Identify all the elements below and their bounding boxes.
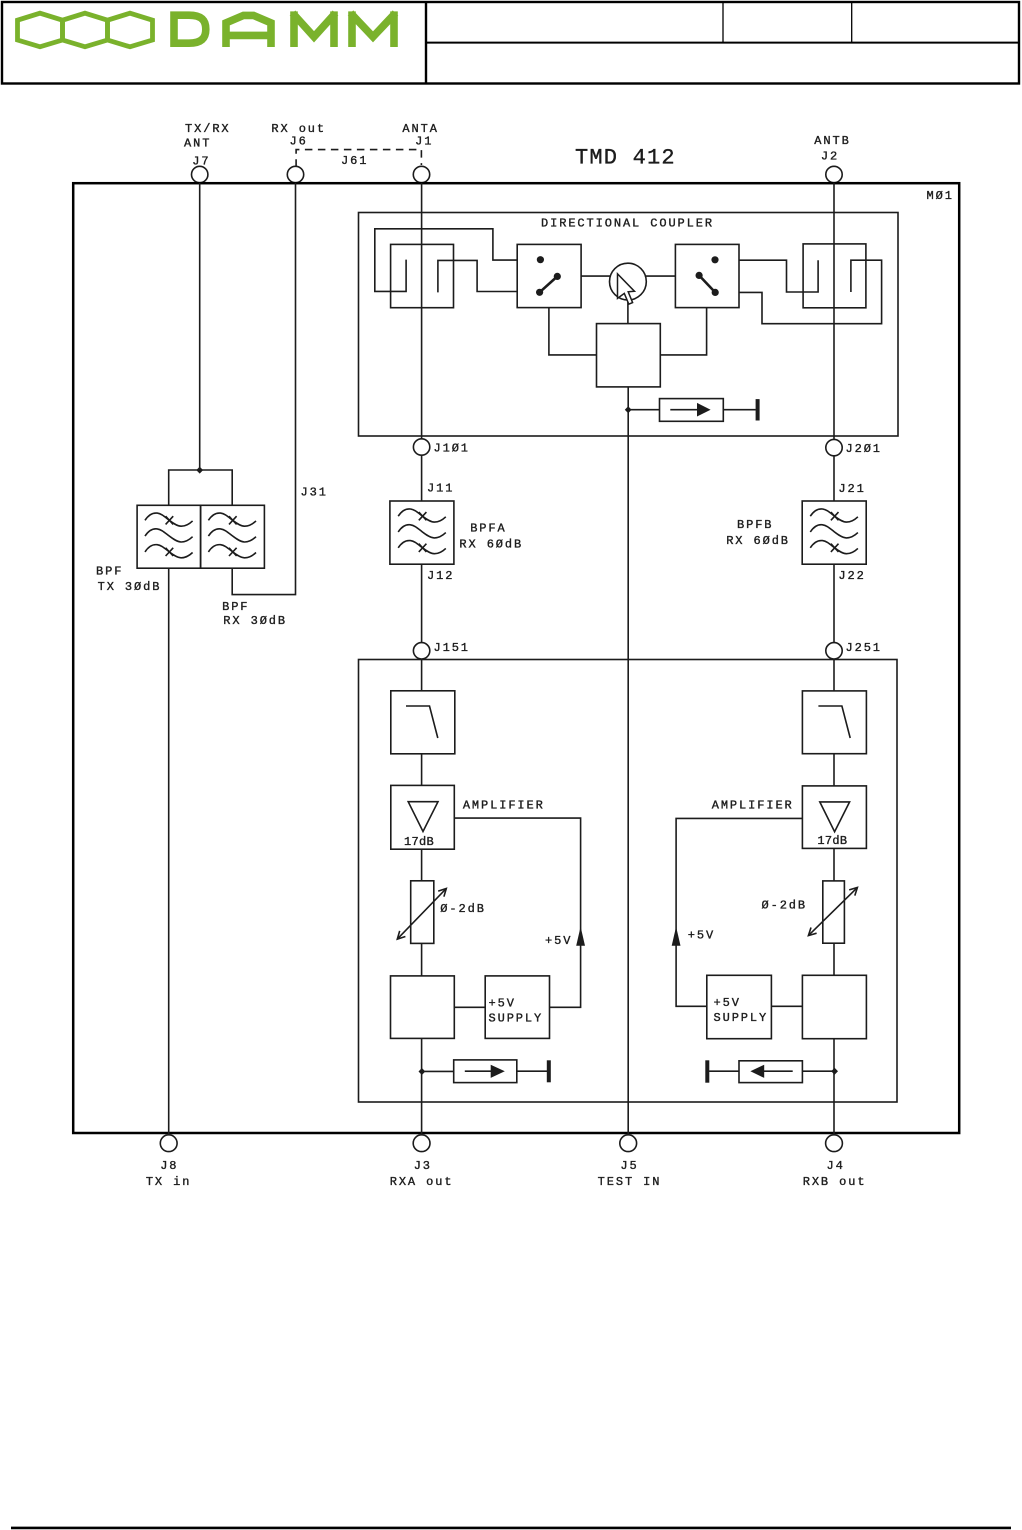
- variable attenuator A box: [411, 881, 434, 944]
- svg-text:DIRECTIONAL COUPLER: DIRECTIONAL COUPLER: [541, 217, 714, 231]
- attenuator pad box with arrow: [660, 399, 724, 422]
- header row divider: [426, 42, 1019, 44]
- wire switch S1 to detector: [549, 308, 597, 355]
- svg-text:+5V: +5V: [489, 997, 516, 1011]
- svg-text:RX 6ØdB: RX 6ØdB: [726, 534, 790, 548]
- +5V arrow B: [672, 927, 681, 946]
- svg-text:J1Ø1: J1Ø1: [434, 442, 470, 456]
- low-pass filter B symbol: [818, 706, 850, 738]
- RF switch S2 contacts and arm: [696, 256, 719, 296]
- DAMM logo letter D: [174, 15, 206, 43]
- termination load bar: [756, 399, 760, 420]
- svg-text:J6: J6: [289, 134, 307, 148]
- dashed link J61 between J6 and J1: [296, 150, 421, 167]
- wire J6 down to J31 corner: [232, 183, 295, 595]
- label J8 TX in: [146, 1159, 192, 1189]
- connector circle J2: [826, 166, 842, 182]
- isolator B box with arrow: [739, 1061, 802, 1083]
- svg-text:J3: J3: [414, 1159, 432, 1173]
- duplexer filter BPF TX box: [137, 505, 201, 568]
- label TX/RX ANT J7: [184, 122, 231, 169]
- svg-text:TX in: TX in: [146, 1175, 192, 1189]
- wire BPF TX feed tee: [169, 470, 233, 505]
- variable attenuator A arrow: [397, 889, 446, 940]
- wire J2 lower segment BPFB to J251: [833, 564, 835, 691]
- svg-text:BPFB: BPFB: [737, 518, 773, 532]
- mouse cursor pointer: [618, 274, 635, 304]
- label J4 RXB out: [803, 1159, 867, 1189]
- wire mixer A down to J3: [421, 1038, 423, 1134]
- label ANTA J1: [402, 122, 438, 148]
- main module box M01: [73, 183, 959, 1133]
- wire amp B to attenuator B: [833, 848, 835, 881]
- svg-text:J22: J22: [838, 569, 865, 583]
- connector circle J6: [287, 166, 303, 182]
- junction node A output: [419, 1068, 426, 1075]
- wire junction to isolator A: [422, 1070, 454, 1072]
- junction node test line: [625, 406, 632, 413]
- svg-text:SUPPLY: SUPPLY: [489, 1011, 544, 1025]
- microstrip meander right outer path: [739, 260, 882, 324]
- low-pass filter A box: [391, 691, 455, 754]
- connector circle J4: [826, 1135, 843, 1152]
- amplifier A triangle: [408, 802, 438, 832]
- microstrip meander right inner loop: [803, 244, 866, 308]
- DAMM logo hexagon 1: [18, 13, 63, 47]
- svg-text:J251: J251: [846, 641, 882, 655]
- junction node at BPF TX input: [196, 467, 203, 474]
- connector circle J251: [826, 643, 842, 659]
- wire attenuator to termination: [723, 409, 756, 411]
- amplifier B triangle: [820, 802, 850, 832]
- microstrip meander left finger path: [438, 260, 517, 292]
- svg-text:AMPLIFIER: AMPLIFIER: [463, 798, 545, 812]
- svg-text:J21: J21: [838, 482, 865, 496]
- band-pass filter BPFB box: [802, 501, 866, 564]
- isolator A box with arrow: [454, 1060, 517, 1083]
- header top-row cell divider 2: [851, 2, 853, 43]
- DAMM logo hexagon 2: [63, 13, 108, 47]
- RF switch S1 contacts and arm: [536, 256, 561, 296]
- wire isolator A to termination: [517, 1070, 547, 1072]
- wire attenuator B to mixer B: [833, 943, 835, 975]
- connector circle J3: [413, 1135, 430, 1152]
- svg-text:J31: J31: [301, 486, 328, 500]
- amplifier B box: [802, 786, 866, 849]
- wire amp B +5V feed: [676, 818, 802, 1006]
- BPF TX wave symbols: [145, 513, 193, 558]
- band-pass filter BPFA box: [390, 501, 454, 564]
- svg-text:BPFA: BPFA: [470, 522, 506, 536]
- wire isolator B to termination: [709, 1070, 739, 1072]
- svg-text:RX 6ØdB: RX 6ØdB: [459, 537, 523, 551]
- low-pass filter B box: [802, 691, 866, 754]
- svg-text:TMD 412: TMD 412: [575, 146, 676, 171]
- connector circle J8: [160, 1135, 177, 1152]
- svg-text:MØ1: MØ1: [927, 189, 954, 203]
- circulator circle: [610, 263, 647, 300]
- detector box: [597, 324, 661, 387]
- svg-text:J2Ø1: J2Ø1: [846, 442, 882, 456]
- lower RX section box: [359, 660, 898, 1103]
- RF switch S1 box: [517, 244, 581, 307]
- svg-text:J5: J5: [620, 1159, 638, 1173]
- wire TEST IN vertical J5: [627, 387, 629, 1135]
- svg-text:17dB: 17dB: [817, 834, 847, 848]
- connector circle J201: [826, 439, 842, 455]
- svg-text:SUPPLY: SUPPLY: [714, 1011, 769, 1025]
- microstrip meander left inner loop: [391, 244, 454, 307]
- svg-text:J2: J2: [821, 150, 839, 164]
- RF switch S2 box: [675, 244, 739, 307]
- svg-text:J8: J8: [160, 1159, 178, 1173]
- svg-text:RX 3ØdB: RX 3ØdB: [223, 614, 287, 628]
- wire switch S1 to circulator: [581, 275, 611, 277]
- +5V supply box B: [707, 975, 772, 1038]
- svg-text:J11: J11: [427, 482, 454, 496]
- svg-text:ANT: ANT: [184, 137, 211, 151]
- wire switch S2 to detector: [660, 308, 706, 355]
- label BPF TX 30dB: [96, 565, 161, 594]
- amplifier A box: [391, 785, 455, 849]
- svg-text:AMPLIFIER: AMPLIFIER: [712, 798, 794, 812]
- svg-text:J12: J12: [427, 569, 454, 583]
- BPFA wave symbols: [398, 509, 446, 554]
- wire circulator to detector box: [627, 300, 629, 324]
- connector circle J1: [413, 166, 429, 182]
- wire junction to attenuator: [628, 409, 659, 411]
- svg-text:TEST IN: TEST IN: [598, 1175, 662, 1189]
- header divider logo cell right edge: [425, 2, 427, 84]
- wire mixer A to supply A: [454, 1006, 485, 1008]
- connector circle J151: [413, 643, 429, 659]
- header top-row cell divider 1: [722, 2, 724, 43]
- wire J7 to BPF junction: [199, 183, 201, 470]
- connector circle J5: [620, 1135, 637, 1152]
- junction node B output: [831, 1068, 838, 1075]
- connector circle J7: [192, 166, 208, 182]
- termination bar B: [705, 1060, 709, 1082]
- mixer box B: [802, 975, 866, 1038]
- wire LPF A to amp A: [421, 754, 423, 786]
- DAMM logo letter M2: [351, 11, 396, 47]
- DAMM logo hexagon 3: [108, 13, 153, 47]
- microstrip meander left outer path: [375, 229, 517, 292]
- wire amp A +5V feed: [454, 818, 580, 1007]
- connector circle J101: [413, 439, 429, 455]
- svg-text:J61: J61: [341, 154, 368, 168]
- wire mixer B down to J4: [833, 1039, 835, 1135]
- low-pass filter A symbol: [406, 706, 438, 738]
- svg-text:J4: J4: [826, 1159, 844, 1173]
- wire junction to isolator B: [802, 1070, 834, 1072]
- svg-text:+5V: +5V: [714, 996, 741, 1010]
- variable attenuator B arrow: [808, 888, 857, 936]
- BPFB wave symbols: [810, 509, 858, 554]
- svg-text:BPF: BPF: [222, 600, 249, 614]
- +5V supply box A: [485, 976, 549, 1039]
- svg-text:17dB: 17dB: [404, 835, 434, 849]
- duplexer filter BPF RX box: [201, 505, 265, 568]
- svg-text:+5V: +5V: [688, 929, 715, 943]
- wire J1 lower segment BPFA to J151: [421, 564, 423, 691]
- svg-text:Ø-2dB: Ø-2dB: [440, 902, 486, 916]
- BPF RX wave symbols: [208, 513, 256, 558]
- svg-text:J151: J151: [434, 641, 470, 655]
- variable attenuator B box: [823, 881, 845, 943]
- directional coupler box: [359, 213, 899, 437]
- mixer box A: [391, 976, 455, 1039]
- svg-text:BPF: BPF: [96, 565, 123, 579]
- footer rule: [11, 1527, 1011, 1530]
- microstrip meander right U path: [739, 260, 818, 292]
- DAMM logo letter M: [293, 11, 336, 47]
- wire circulator to switch S2: [645, 275, 676, 277]
- label RX out J6: [271, 122, 326, 148]
- label J5 TEST IN: [598, 1159, 662, 1189]
- +5V arrow A: [576, 927, 585, 946]
- wire amp A to attenuator A: [421, 849, 423, 881]
- svg-text:TX 3ØdB: TX 3ØdB: [98, 580, 162, 594]
- wire supply B to mixer B: [771, 1005, 802, 1007]
- svg-text:TX/RX: TX/RX: [185, 122, 231, 136]
- wire J2 vertical ANTB chain: [833, 183, 835, 501]
- svg-text:RXA out: RXA out: [390, 1175, 454, 1189]
- svg-text:ANTB: ANTB: [814, 134, 850, 148]
- label J3 RXA out: [390, 1159, 454, 1189]
- svg-text:+5V: +5V: [545, 934, 572, 948]
- svg-text:Ø-2dB: Ø-2dB: [762, 899, 808, 913]
- svg-text:RXB out: RXB out: [803, 1175, 867, 1189]
- wire J1 vertical ANTA chain: [421, 183, 423, 501]
- wire attenuator A to mixer A: [421, 943, 423, 976]
- header table outer frame: [2, 2, 1019, 84]
- DAMM logo letter A: [226, 15, 271, 47]
- wire TX in vertical J8: [168, 568, 170, 1134]
- svg-text:J1: J1: [415, 134, 433, 148]
- termination bar A: [547, 1060, 551, 1082]
- label ANTB J2: [814, 134, 850, 164]
- label BPF RX 30dB: [222, 600, 287, 628]
- wire LPF B to amp B: [833, 754, 835, 786]
